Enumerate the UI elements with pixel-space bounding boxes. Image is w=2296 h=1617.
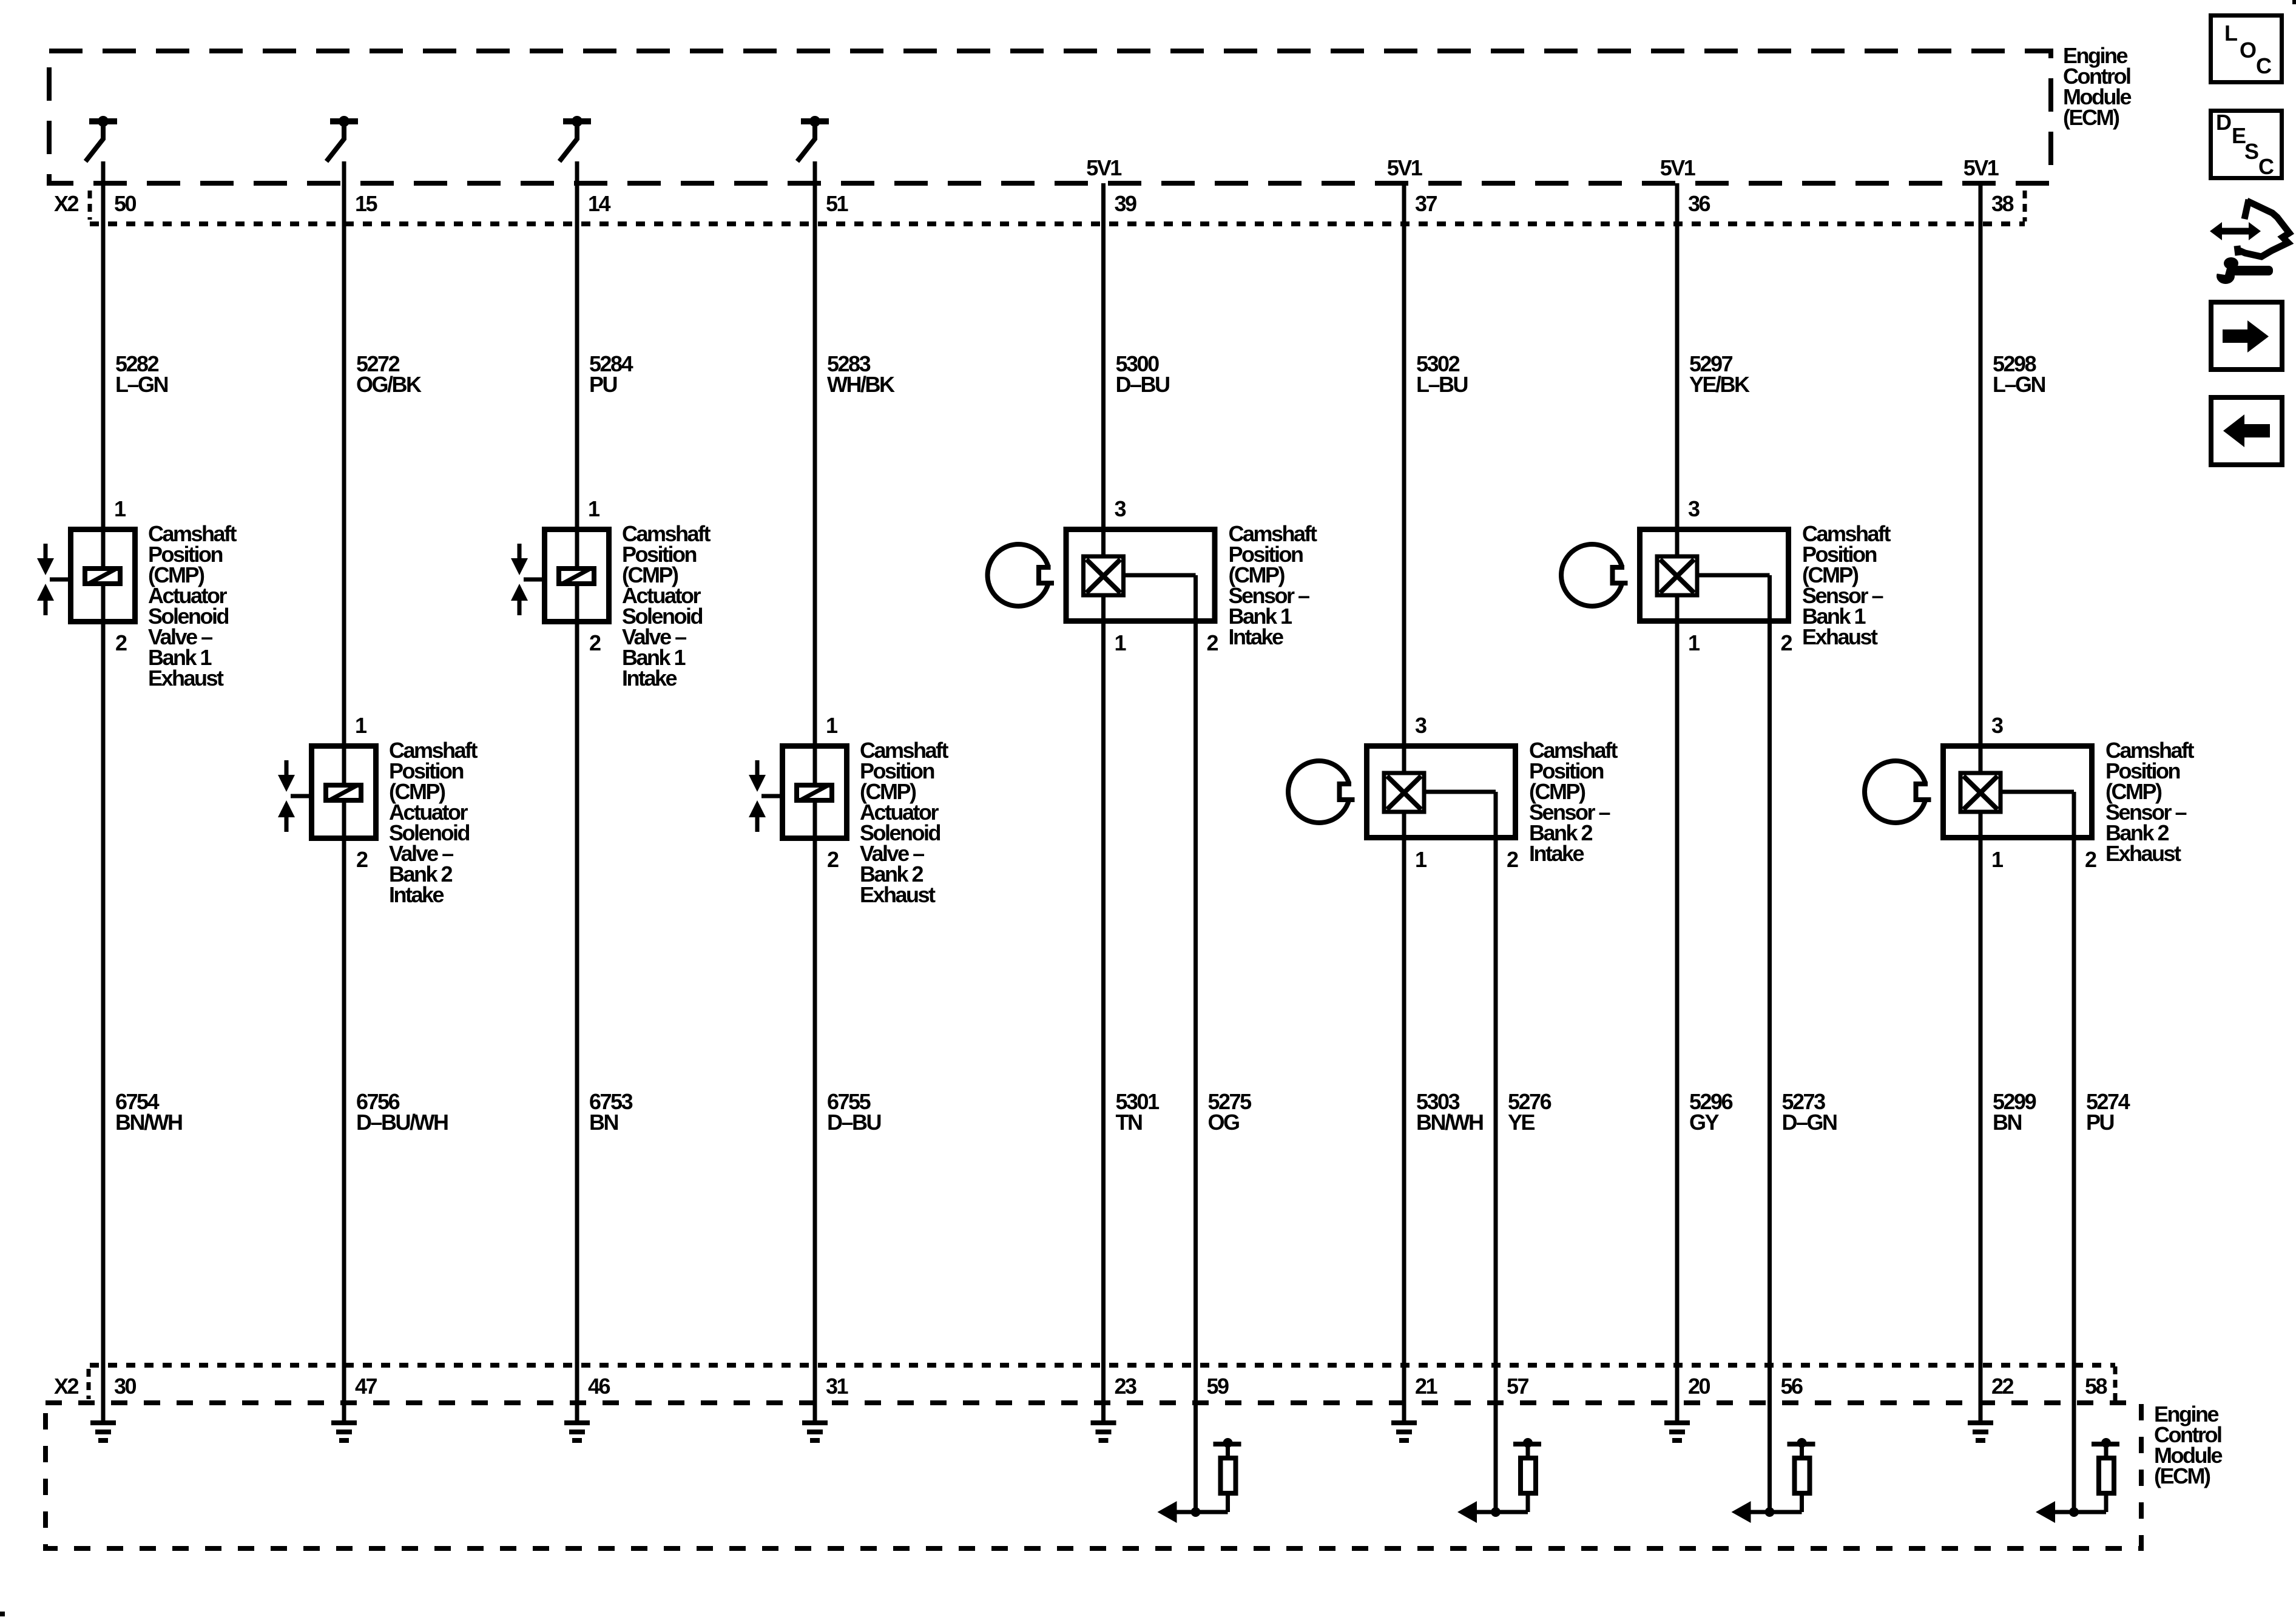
svg-text:PU: PU xyxy=(2086,1110,2114,1135)
ground (ECM internal) under X2-22 xyxy=(1968,1423,1993,1440)
ground (ECM internal) under X2-20 xyxy=(1664,1423,1690,1440)
svg-text:C: C xyxy=(2256,53,2272,78)
svg-text:3: 3 xyxy=(1688,496,1700,521)
wire 5276 YE (sensor pin 2 to X2-57) xyxy=(1494,792,1498,1512)
svg-text:YE/BK: YE/BK xyxy=(1689,372,1750,397)
wire 5275 OG (sensor pin 2 to X2-59) xyxy=(1194,575,1198,1512)
node junction on X2-56 xyxy=(1765,1507,1775,1517)
svg-text:D–BU: D–BU xyxy=(827,1110,881,1135)
icon right arrow box xyxy=(2211,302,2282,370)
label wire 5282 L–GN xyxy=(115,351,168,397)
svg-text:S: S xyxy=(2244,139,2258,164)
svg-text:5V1: 5V1 xyxy=(1963,155,1999,180)
label wire 5275 OG xyxy=(1208,1089,1252,1135)
wire sensor Bank 2 Intake pin 2 tap xyxy=(1426,790,1496,794)
connector X2 top right tick xyxy=(2023,191,2027,221)
component name text (Bank 1 Exhaust) xyxy=(148,521,237,690)
CMP actuator solenoid valve - Bank 2 Intake : solenoid coil symbol xyxy=(326,785,361,801)
svg-text:59: 59 xyxy=(1207,1374,1229,1399)
CMP sensor - Bank 1 Exhaust : sensing element (X box) xyxy=(1657,556,1697,595)
svg-text:L–GN: L–GN xyxy=(115,372,168,397)
svg-text:1: 1 xyxy=(588,496,600,521)
CMP sensor - Bank 1 Exhaust : reluctor wheel circle xyxy=(1561,544,1627,606)
node junction on X2-57 xyxy=(1491,1507,1501,1517)
CMP sensor - Bank 1 Intake : sensing element (X box) xyxy=(1084,556,1124,595)
pull-up resistor R1 and 5V node (ECM internal) on X2-59 xyxy=(1214,1438,1241,1512)
svg-text:1: 1 xyxy=(1115,630,1127,655)
CMP actuator solenoid valve - Bank 2 Exhaust : component box xyxy=(783,746,847,839)
svg-text:GY: GY xyxy=(1689,1110,1720,1135)
svg-text:5V1: 5V1 xyxy=(1086,155,1122,180)
CMP actuator solenoid valve - Bank 2 Intake : component box xyxy=(312,746,376,839)
component name text (Bank 1 Intake) xyxy=(622,521,711,690)
connector X2 bottom row dotted line xyxy=(90,1363,2115,1368)
component name text (Bank 2 Intake) xyxy=(389,738,478,907)
svg-text:Exhaust: Exhaust xyxy=(1802,624,1878,649)
svg-text:14: 14 xyxy=(588,191,611,216)
svg-text:(ECM): (ECM) xyxy=(2063,105,2119,130)
label wire 6753 BN xyxy=(589,1089,633,1135)
wire 5282 L–GN (vertical, X2-50 to component) xyxy=(101,161,106,1423)
svg-text:3: 3 xyxy=(1991,713,2003,738)
wire signal feed to ECM logic (arrow) on X2-59 xyxy=(1158,1501,1228,1523)
CMP sensor - Bank 1 Intake : component box xyxy=(1066,530,1215,621)
svg-text:47: 47 xyxy=(355,1374,377,1399)
component name text (Bank 2 Exhaust) xyxy=(2105,738,2195,866)
CMP sensor - Bank 2 Exhaust : sensing element (X box) xyxy=(1960,773,2001,812)
ground (ECM internal) under X2-46 xyxy=(564,1423,590,1440)
pull-up resistor R2 and 5V node (ECM internal) on X2-57 xyxy=(1513,1438,1541,1512)
svg-text:Exhaust: Exhaust xyxy=(860,882,936,907)
label wire 5283 WH/BK xyxy=(827,351,895,397)
label wire 5297 YE/BK xyxy=(1689,351,1750,397)
label wire 5298 L–GN xyxy=(1993,351,2045,397)
svg-text:5V1: 5V1 xyxy=(1387,155,1423,180)
svg-text:39: 39 xyxy=(1115,191,1137,216)
wire 5298 L–GN (vertical, X2-38 to component) xyxy=(1979,183,1983,1423)
svg-text:WH/BK: WH/BK xyxy=(827,372,895,397)
ECM bottom dashed box (Engine Control Module) xyxy=(46,1403,2141,1548)
svg-text:BN/WH: BN/WH xyxy=(115,1110,182,1135)
label wire 6754 BN/WH xyxy=(115,1089,182,1135)
svg-text:Exhaust: Exhaust xyxy=(2105,841,2181,866)
ECM driver switch col 3 xyxy=(559,116,591,161)
svg-text:L–GN: L–GN xyxy=(1993,372,2045,397)
svg-text:X2: X2 xyxy=(54,1374,79,1399)
pull-up resistor R4 and 5V node (ECM internal) on X2-58 xyxy=(2092,1438,2119,1512)
node junction on X2-58 xyxy=(2069,1507,2079,1517)
svg-text:21: 21 xyxy=(1415,1374,1438,1399)
svg-text:D: D xyxy=(2216,110,2231,135)
CMP sensor - Bank 2 Exhaust : reluctor wheel circle xyxy=(1865,761,1931,823)
svg-text:2: 2 xyxy=(1781,630,1792,655)
icon DESC box xyxy=(2211,110,2282,179)
svg-text:X2: X2 xyxy=(54,191,79,216)
svg-text:2: 2 xyxy=(1507,847,1518,872)
ECM driver switch col 2 xyxy=(326,116,358,161)
label wire 5301 TN xyxy=(1116,1089,1160,1135)
svg-text:20: 20 xyxy=(1688,1374,1710,1399)
svg-text:Intake: Intake xyxy=(1229,624,1284,649)
svg-text:30: 30 xyxy=(114,1374,137,1399)
wire 5283 WH/BK (vertical, X2-51 to component) xyxy=(813,161,817,1423)
svg-text:15: 15 xyxy=(355,191,378,216)
svg-text:50: 50 xyxy=(114,191,137,216)
svg-text:BN: BN xyxy=(589,1110,618,1135)
svg-text:YE: YE xyxy=(1508,1110,1535,1135)
label wire 5299 BN xyxy=(1993,1089,2036,1135)
ground (ECM internal) under X2-23 xyxy=(1091,1423,1116,1440)
svg-text:38: 38 xyxy=(1991,191,2014,216)
svg-text:(ECM): (ECM) xyxy=(2154,1463,2210,1488)
icon LOC box xyxy=(2211,16,2282,83)
svg-text:D–GN: D–GN xyxy=(1782,1110,1837,1135)
ECM label top right xyxy=(2063,43,2131,130)
ground (ECM internal) under X2-30 xyxy=(90,1423,116,1440)
CMP sensor - Bank 2 Intake : reluctor wheel circle xyxy=(1288,761,1354,823)
connector X2 top row dotted line xyxy=(90,221,2025,226)
svg-text:D–BU/WH: D–BU/WH xyxy=(356,1110,448,1135)
ECM driver switch col 1 xyxy=(86,116,117,161)
connector X2 top tick xyxy=(88,191,92,220)
CMP actuator solenoid valve - Bank 1 Intake : oil flow valve arrows xyxy=(511,544,542,615)
CMP actuator solenoid valve - Bank 2 Exhaust : oil flow valve arrows xyxy=(749,760,780,832)
svg-text:1: 1 xyxy=(1415,847,1427,872)
wire 5300 D–BU (vertical, X2-39 to component) xyxy=(1101,183,1106,1423)
svg-text:TN: TN xyxy=(1116,1110,1142,1135)
wire 5272 OG/BK (vertical, X2-15 to component) xyxy=(342,161,346,1423)
svg-text:2: 2 xyxy=(115,630,127,655)
wire sensor Bank 1 Exhaust pin 2 tap xyxy=(1699,573,1770,578)
svg-text:3: 3 xyxy=(1115,496,1126,521)
svg-text:1: 1 xyxy=(1991,847,2004,872)
svg-text:E: E xyxy=(2232,123,2246,148)
svg-text:2: 2 xyxy=(827,847,839,872)
CMP sensor - Bank 2 Intake : component box xyxy=(1367,746,1516,838)
ECM label bottom right xyxy=(2154,1402,2222,1488)
component name text (Bank 1 Intake) xyxy=(1229,521,1318,649)
svg-text:57: 57 xyxy=(1507,1374,1529,1399)
pull-up resistor R3 and 5V node (ECM internal) on X2-56 xyxy=(1788,1438,1815,1512)
wire sensor Bank 2 Exhaust pin 2 tap xyxy=(2002,790,2074,794)
wire 5273 D–GN (sensor pin 2 to X2-56) xyxy=(1768,575,1772,1512)
CMP actuator solenoid valve - Bank 1 Exhaust : oil flow valve arrows xyxy=(37,544,68,615)
svg-text:OG/BK: OG/BK xyxy=(356,372,422,397)
wire signal feed to ECM logic (arrow) on X2-58 xyxy=(2036,1501,2106,1523)
svg-text:BN: BN xyxy=(1993,1110,2021,1135)
CMP sensor - Bank 1 Intake : reluctor wheel circle xyxy=(988,544,1054,606)
CMP sensor - Bank 2 Intake : sensing element (X box) xyxy=(1384,773,1424,812)
svg-text:Intake: Intake xyxy=(622,666,677,690)
label wire 5300 D–BU xyxy=(1116,351,1170,397)
label wire 5296 GY xyxy=(1689,1089,1733,1135)
connector X2 bottom right tick xyxy=(2113,1366,2118,1402)
component name text (Bank 1 Exhaust) xyxy=(1802,521,1891,649)
ground (ECM internal) under X2-47 xyxy=(331,1423,357,1440)
connector X2 bottom tick xyxy=(87,1369,91,1399)
svg-text:56: 56 xyxy=(1781,1374,1803,1399)
component name text (Bank 2 Intake) xyxy=(1529,738,1618,866)
CMP actuator solenoid valve - Bank 2 Intake : oil flow valve arrows xyxy=(278,760,309,832)
node junction on X2-59 xyxy=(1191,1507,1201,1517)
label wire 5272 OG/BK xyxy=(356,351,422,397)
svg-text:Intake: Intake xyxy=(1529,841,1584,866)
ground (ECM internal) under X2-31 xyxy=(802,1423,828,1440)
svg-text:1: 1 xyxy=(355,713,367,738)
svg-text:1: 1 xyxy=(1688,630,1700,655)
CMP actuator solenoid valve - Bank 2 Exhaust : solenoid coil symbol xyxy=(797,785,832,801)
label wire 5276 YE xyxy=(1508,1089,1551,1135)
svg-text:23: 23 xyxy=(1115,1374,1137,1399)
label wire 6756 D–BU/WH xyxy=(356,1089,448,1135)
wire sensor Bank 1 Intake pin 2 tap xyxy=(1126,573,1196,578)
label wire 5284 PU xyxy=(589,351,633,397)
wire 5302 L–BU (vertical, X2-37 to component) xyxy=(1402,183,1406,1423)
svg-text:2: 2 xyxy=(2085,847,2096,872)
svg-text:31: 31 xyxy=(826,1374,849,1399)
svg-text:Exhaust: Exhaust xyxy=(148,666,224,690)
svg-text:D–BU: D–BU xyxy=(1116,372,1170,397)
svg-text:BN/WH: BN/WH xyxy=(1416,1110,1483,1135)
svg-text:OG: OG xyxy=(1208,1110,1240,1135)
svg-text:L–BU: L–BU xyxy=(1416,372,1468,397)
icon wrench / component view xyxy=(2209,200,2289,284)
svg-text:51: 51 xyxy=(826,191,849,216)
CMP sensor - Bank 2 Exhaust : component box xyxy=(1943,746,2092,838)
ECM driver switch col 4 xyxy=(797,116,829,161)
label wire 5303 BN/WH xyxy=(1416,1089,1483,1135)
svg-text:L: L xyxy=(2224,21,2237,46)
CMP actuator solenoid valve - Bank 1 Intake : component box xyxy=(545,530,609,622)
svg-text:46: 46 xyxy=(588,1374,610,1399)
label wire 5273 D–GN xyxy=(1782,1089,1837,1135)
CMP actuator solenoid valve - Bank 1 Exhaust : solenoid coil symbol xyxy=(85,568,120,584)
svg-text:37: 37 xyxy=(1415,191,1437,216)
label wire 5274 PU xyxy=(2086,1089,2130,1135)
wire signal feed to ECM logic (arrow) on X2-57 xyxy=(1457,1501,1528,1523)
svg-text:1: 1 xyxy=(114,496,126,521)
svg-text:Intake: Intake xyxy=(389,882,444,907)
svg-text:2: 2 xyxy=(589,630,601,655)
wire signal feed to ECM logic (arrow) on X2-56 xyxy=(1732,1501,1802,1523)
svg-text:5V1: 5V1 xyxy=(1660,155,1696,180)
svg-text:3: 3 xyxy=(1415,713,1427,738)
svg-text:PU: PU xyxy=(589,372,617,397)
svg-text:1: 1 xyxy=(826,713,838,738)
svg-text:2: 2 xyxy=(356,847,368,872)
wire 5274 PU (sensor pin 2 to X2-58) xyxy=(2072,792,2076,1512)
svg-text:O: O xyxy=(2240,38,2256,62)
icon left arrow box xyxy=(2211,397,2282,465)
svg-text:C: C xyxy=(2258,154,2274,179)
svg-text:2: 2 xyxy=(1207,630,1218,655)
ground (ECM internal) under X2-21 xyxy=(1391,1423,1417,1440)
component name text (Bank 2 Exhaust) xyxy=(860,738,949,907)
svg-text:22: 22 xyxy=(1991,1374,2014,1399)
wire 5284 PU (vertical, X2-14 to component) xyxy=(575,161,579,1423)
wire 5297 YE/BK (vertical, X2-36 to component) xyxy=(1675,183,1680,1423)
label wire 5302 L–BU xyxy=(1416,351,1468,397)
CMP sensor - Bank 1 Exhaust : component box xyxy=(1640,530,1789,621)
CMP actuator solenoid valve - Bank 1 Exhaust : component box xyxy=(71,530,135,622)
svg-text:58: 58 xyxy=(2085,1374,2107,1399)
CMP actuator solenoid valve - Bank 1 Intake : solenoid coil symbol xyxy=(559,568,594,584)
ECM top dashed box (Engine Control Module) xyxy=(49,51,2051,183)
label wire 6755 D–BU xyxy=(827,1089,881,1135)
svg-text:36: 36 xyxy=(1688,191,1710,216)
